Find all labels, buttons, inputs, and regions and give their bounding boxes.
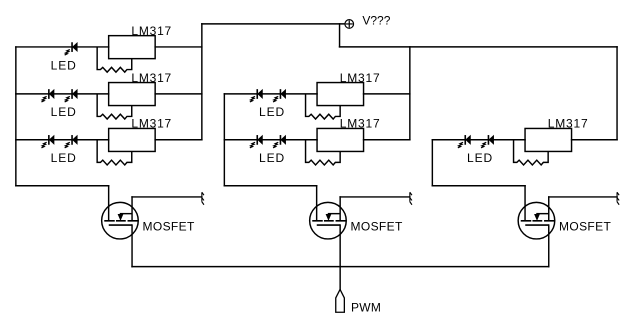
wire source bus joining Q1 Q2 Q3 [132, 266, 549, 268]
wire group2 right supply bus [409, 47, 411, 140]
resistor R6 (LM317 program resistor) [514, 140, 549, 165]
gate squiggle terminator of Q2 [410, 192, 412, 205]
svg-text:PWM: PWM [351, 300, 381, 314]
wire source of Q3 [548, 225, 550, 267]
wire drop from top bus to secondary bus [339, 24, 341, 47]
LED D10 [458, 135, 471, 148]
LED D2 [41, 89, 54, 102]
LED D7 [273, 89, 286, 102]
resistor R4 (LM317 program resistor) [306, 94, 341, 119]
transistor Q3 MOSFET [518, 186, 555, 239]
label LM317 for U4 [340, 71, 381, 85]
svg-text:LED: LED [467, 151, 493, 165]
svg-text:LED: LED [51, 105, 77, 119]
wire row at y=93.4: left bus through LEDs to U4 input [224, 93, 317, 95]
regulator U1 LM317 [109, 36, 156, 59]
regulator U5 LM317 [317, 128, 364, 151]
wire gate of Q1 [132, 196, 202, 198]
resistor R5 (LM317 program resistor) [306, 140, 341, 165]
label LED for D10 D11 [467, 151, 493, 165]
label LED for D6 D7 [259, 105, 285, 119]
wire row at y=46.5: left bus through LEDs to U1 input [16, 46, 109, 48]
regulator U4 LM317 [317, 83, 364, 106]
svg-text:LM317: LM317 [131, 117, 172, 131]
resistor R1 (LM317 program resistor) [97, 47, 132, 72]
regulator U3 LM317 [109, 128, 156, 151]
node PWM input connector [336, 289, 345, 312]
wire gate of Q3 [549, 196, 617, 198]
regulator U2 LM317 [109, 83, 156, 106]
svg-text:LM317: LM317 [131, 24, 172, 38]
svg-text:LED: LED [259, 151, 285, 165]
wire U5 output to right bus [364, 139, 410, 141]
wire group1 cathode bus to Q1 drain [16, 185, 109, 187]
LED D8 [250, 135, 263, 148]
LED D6 [250, 89, 263, 102]
svg-text:V???: V??? [362, 13, 390, 27]
transistor Q1 MOSFET [102, 186, 139, 239]
wire U6 output to right bus [572, 139, 618, 141]
label LM317 for U3 [131, 117, 172, 131]
resistor R3 (LM317 program resistor) [97, 140, 132, 165]
wire U4 output to right bus [364, 93, 410, 95]
transistor Q2 MOSFET [310, 186, 347, 239]
wire secondary supply bus to groups 2 and 3 [340, 46, 617, 48]
wire row at y=139.3: left bus through LEDs to U5 input [224, 139, 317, 141]
wire group3 right supply bus [616, 47, 618, 140]
label PWM [351, 300, 381, 314]
label LED for D1 [51, 58, 77, 72]
svg-text:LM317: LM317 [340, 117, 381, 131]
wire source of Q2 [339, 225, 341, 289]
label MOSFET for Q3 [559, 219, 611, 233]
wire group1 left cathode bus [15, 47, 17, 186]
svg-text:MOSFET: MOSFET [559, 219, 611, 233]
wire row at y=93.4: left bus through LEDs to U2 input [16, 93, 109, 95]
svg-text:MOSFET: MOSFET [351, 219, 403, 233]
label MOSFET for Q2 [351, 219, 403, 233]
LED D3 [65, 89, 78, 102]
resistor R2 (LM317 program resistor) [97, 94, 132, 119]
label LM317 for U5 [340, 117, 381, 131]
label LED for D4 D5 [51, 151, 77, 165]
label LED for D8 D9 [259, 151, 285, 165]
wire group3 cathode bus to Q3 drain [432, 185, 525, 187]
regulator U6 LM317 [525, 128, 572, 151]
LED D11 [481, 135, 494, 148]
wire row at y=139.3: left bus through LEDs to U6 input [432, 139, 525, 141]
svg-text:LED: LED [51, 58, 77, 72]
wire gate of Q2 [340, 196, 410, 198]
wire group2 cathode bus to Q2 drain [224, 185, 316, 187]
svg-text:LM317: LM317 [340, 71, 381, 85]
wire U2 output to right bus [155, 93, 202, 95]
label LM317 for U6 [548, 117, 589, 131]
wire U3 output to right bus [155, 139, 202, 141]
wire group1 right supply bus [201, 24, 203, 140]
LED D1 [65, 42, 78, 55]
node V??? power terminal circle [345, 20, 354, 29]
label LED for D2 D3 [51, 105, 77, 119]
label LM317 for U1 [131, 24, 172, 38]
LED D4 [41, 135, 54, 148]
wire U1 output to right bus [155, 46, 202, 48]
label V??? [362, 13, 390, 27]
svg-text:LM317: LM317 [131, 71, 172, 85]
LED D5 [65, 135, 78, 148]
wire row at y=139.3: left bus through LEDs to U3 input [16, 139, 109, 141]
wire source of Q1 [131, 225, 133, 267]
gate squiggle terminator of Q1 [202, 192, 204, 205]
label LM317 for U2 [131, 71, 172, 85]
svg-text:LED: LED [259, 105, 285, 119]
wire group2 left cathode bus [223, 94, 225, 186]
wire group3 left cathode bus [431, 140, 433, 186]
gate squiggle terminator of Q3 [617, 192, 619, 205]
LED D9 [273, 135, 286, 148]
svg-text:LED: LED [51, 151, 77, 165]
wire top supply bus (group1 bus to V+ node) [202, 23, 345, 25]
svg-text:MOSFET: MOSFET [143, 219, 195, 233]
svg-text:LM317: LM317 [548, 117, 589, 131]
label MOSFET for Q1 [143, 219, 195, 233]
